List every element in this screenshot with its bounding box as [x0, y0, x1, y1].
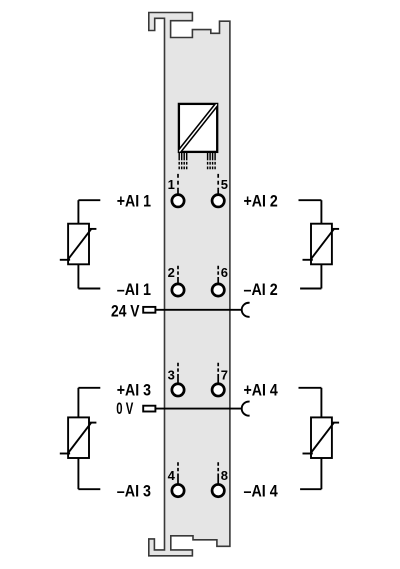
svg-text:8: 8: [221, 468, 228, 483]
U1 pin group left: [179, 152, 187, 169]
svg-text:0 V: 0 V: [116, 399, 133, 418]
module body outline: [149, 13, 230, 556]
wire 24V bus: [155, 309, 241, 311]
svg-text:–AI 1: –AI 1: [117, 280, 151, 299]
svg-text:4: 4: [168, 468, 176, 483]
svg-text:6: 6: [221, 265, 228, 280]
svg-text:1: 1: [168, 177, 175, 192]
terminal contact 4: [172, 484, 184, 496]
wire dashed leader to terminal 1: [177, 174, 179, 194]
svg-text:3: 3: [168, 368, 175, 383]
wire dashed leader to terminal 3: [177, 363, 179, 383]
svg-text:+AI 1: +AI 1: [117, 192, 151, 211]
terminal contact 2: [172, 284, 184, 296]
op-amp U1 A/D converter box: [179, 104, 217, 152]
sensor RT4 thermistor: [299, 388, 340, 489]
terminal contact 5: [212, 195, 224, 207]
0V bus socket arc: [242, 402, 250, 416]
terminal contact 8: [212, 484, 224, 496]
wire dashed leader to terminal 6: [217, 266, 219, 284]
wire dashed leader to terminal 5: [217, 174, 219, 194]
svg-text:–AI 4: –AI 4: [244, 481, 279, 500]
wire dashed leader to terminal 2: [177, 266, 179, 284]
svg-text:+AI 4: +AI 4: [244, 381, 279, 400]
terminal contact 6: [212, 284, 224, 296]
24V bus socket arc: [242, 303, 250, 317]
svg-text:+AI 2: +AI 2: [244, 192, 278, 211]
terminal contact 3: [172, 384, 184, 396]
wire dashed leader to terminal 4: [177, 462, 179, 484]
svg-text:–AI 3: –AI 3: [117, 481, 151, 500]
svg-text:2: 2: [168, 265, 175, 280]
svg-text:7: 7: [221, 368, 228, 383]
sensor RT2 thermistor: [299, 200, 340, 288]
wire 0V bus: [155, 408, 241, 410]
sensor RT3 thermistor: [60, 388, 101, 489]
wire dashed leader to terminal 7: [217, 363, 219, 383]
U1 pin group right: [208, 152, 216, 169]
svg-text:+AI 3: +AI 3: [117, 381, 151, 400]
wire dashed leader to terminal 8: [217, 462, 219, 484]
svg-text:5: 5: [221, 177, 228, 192]
24V feed tab: [143, 307, 155, 313]
sensor RT1 thermistor: [60, 200, 101, 288]
0V feed tab: [143, 406, 155, 412]
svg-text:–AI 2: –AI 2: [244, 280, 278, 299]
terminal contact 1: [172, 195, 184, 207]
svg-text:24 V: 24 V: [111, 301, 140, 320]
terminal contact 7: [212, 384, 224, 396]
